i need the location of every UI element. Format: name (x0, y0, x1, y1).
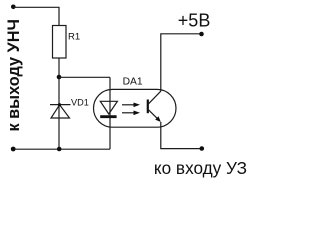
wire: top-left terminal to resistor R1 top (13, 7, 59, 25)
wire: emitter down to output terminal (161, 122, 203, 149)
svg-text:ко входу УЗ: ко входу УЗ (154, 158, 247, 178)
phototransistor emitter with arrow (149, 110, 161, 122)
LED cathode bar (thick) (100, 115, 116, 118)
phototransistor base bar (147, 100, 149, 114)
svg-text:R1: R1 (68, 31, 80, 42)
light arrow (lower) (122, 111, 140, 116)
phototransistor collector (149, 91, 161, 104)
light arrow (upper) (122, 103, 140, 108)
node: +5V terminal dot (199, 32, 204, 37)
svg-text:+5В: +5В (178, 11, 211, 31)
wire: collector up to +5V rail (161, 34, 201, 91)
svg-text:DA1: DA1 (123, 77, 143, 88)
diode VD1 triangle (51, 105, 70, 118)
resistor R1 (53, 26, 67, 59)
wire: resistor bottom to bottom rail (through VD1 branch) (58, 58, 60, 149)
wire: bottom rail (14, 148, 110, 150)
node: output terminal dot (200, 146, 205, 151)
node: left input terminal (top) (11, 5, 16, 10)
wire: LED branch vertical (anode lead and cathode lead) (109, 77, 111, 149)
optocoupler DA1 body (94, 89, 177, 127)
wire: junction to optocoupler LED branch (59, 76, 110, 78)
svg-text:к выходу УНЧ: к выходу УНЧ (5, 19, 23, 131)
LED triangle (anode top, apex down) (100, 101, 117, 114)
node: left input terminal (bottom) (11, 147, 16, 152)
junction blob at VD1 cathode/wire crossing (58, 103, 61, 106)
node: junction bottom rail / VD1 branch (57, 147, 62, 152)
svg-text:VD1: VD1 (71, 97, 89, 107)
node: junction below R1 (57, 75, 62, 80)
diode VD1 cathode bar and leader (50, 104, 71, 106)
